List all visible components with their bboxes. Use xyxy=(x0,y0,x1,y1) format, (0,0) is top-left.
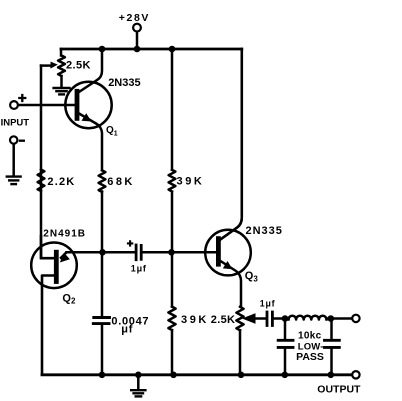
svg-text:1μf: 1μf xyxy=(260,299,276,309)
svg-text:2N335: 2N335 xyxy=(108,77,140,89)
svg-text:1μf: 1μf xyxy=(131,263,147,273)
svg-text:39K: 39K xyxy=(177,175,205,187)
svg-text:2.2K: 2.2K xyxy=(47,176,75,188)
svg-text:39K: 39K xyxy=(181,314,209,326)
svg-text:Q3: Q3 xyxy=(245,270,259,283)
svg-text:2N335: 2N335 xyxy=(246,225,283,237)
svg-text:μf: μf xyxy=(121,324,133,336)
svg-text:PASS: PASS xyxy=(296,351,324,363)
svg-text:2N491B: 2N491B xyxy=(43,229,86,240)
svg-text:+28V: +28V xyxy=(119,12,150,24)
svg-text:INPUT: INPUT xyxy=(1,118,30,129)
svg-text:10kc: 10kc xyxy=(298,330,322,341)
svg-text:OUTPUT: OUTPUT xyxy=(317,383,361,395)
svg-text:68K: 68K xyxy=(107,176,134,188)
svg-text:Q2: Q2 xyxy=(62,292,76,305)
svg-text:2.5K: 2.5K xyxy=(66,60,91,72)
svg-text:2.5K: 2.5K xyxy=(211,314,235,326)
svg-text:Q1: Q1 xyxy=(106,125,118,137)
